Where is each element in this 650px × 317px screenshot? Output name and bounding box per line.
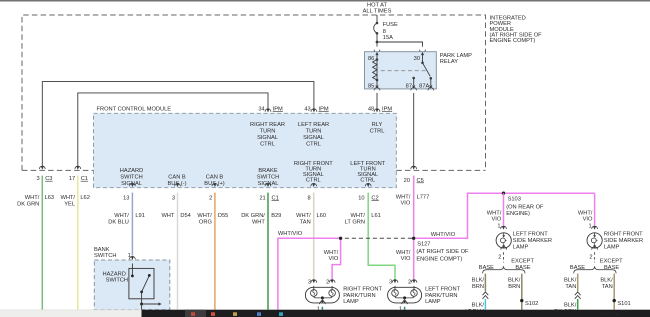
wire WHT/VIO from S127 down to left front park/turn lamp pin 2 — [413, 240, 415, 279]
FCM left front turn signal ctrl label — [350, 161, 385, 183]
svg-text:WHT: WHT — [161, 213, 174, 219]
svg-text:2: 2 — [408, 279, 411, 285]
svg-text:LAMP: LAMP — [343, 299, 359, 305]
taskbar icon teal — [279, 312, 283, 316]
svg-text:RIGHT REAR: RIGHT REAR — [250, 122, 285, 128]
wire L62 WHT/YEL — [77, 176, 79, 310]
park lamp relay box — [365, 52, 437, 89]
svg-text:EXCEPT: EXCEPT — [511, 259, 534, 265]
svg-text:1: 1 — [497, 223, 500, 229]
svg-text:11:25 PM: 11:25 PM — [600, 311, 619, 316]
svg-text:17: 17 — [69, 176, 75, 182]
svg-text:2: 2 — [498, 255, 501, 261]
taskbar icon blue — [257, 312, 261, 316]
svg-text:BRAKE: BRAKE — [258, 168, 277, 174]
wire WHT/VIO branch to right front park/turn lamp pin 2 — [332, 240, 341, 279]
FCM right rear turn signal ctrl label — [250, 122, 285, 148]
svg-text:BLK/: BLK/ — [472, 303, 485, 309]
svg-text:BLK/: BLK/ — [508, 278, 521, 284]
svg-text:43: 43 — [304, 106, 310, 112]
svg-text:(ON REAR OF: (ON REAR OF — [506, 205, 544, 211]
wire L91 WHT/DK BLU to hazard switch — [131, 193, 133, 256]
wire fuse to junction — [376, 33, 378, 42]
integrated power module dashed box — [22, 15, 486, 170]
wire to relay pin 86 — [376, 42, 378, 47]
junction node above relay — [376, 41, 379, 44]
svg-text:10: 10 — [358, 196, 364, 202]
svg-text:WHT/: WHT/ — [324, 250, 339, 256]
svg-text:15A: 15A — [383, 35, 393, 41]
FCM right front turn signal ctrl label — [294, 161, 333, 183]
base / except base bracket left set — [483, 266, 525, 273]
svg-text:SIDE MARKER: SIDE MARKER — [604, 238, 643, 244]
svg-text:WHT/: WHT/ — [60, 195, 75, 201]
relay switch armature — [423, 63, 431, 77]
svg-text:DK GRN: DK GRN — [17, 201, 39, 207]
svg-text:L62: L62 — [80, 195, 90, 201]
connector bump pin 30 — [420, 50, 426, 53]
wire D55 WHT/ORG — [214, 193, 216, 310]
svg-text:LT GRN: LT GRN — [345, 220, 365, 226]
svg-text:DK GRN/: DK GRN/ — [241, 213, 265, 219]
svg-text:(AT RIGHT SIDE OF: (AT RIGHT SIDE OF — [416, 249, 469, 255]
svg-text:RLY: RLY — [372, 122, 383, 128]
svg-text:CTRL: CTRL — [306, 177, 321, 183]
splice S103 — [502, 192, 505, 195]
splice S101 — [613, 299, 616, 302]
wire L777 WHT/VIO from pin 20 C5 — [413, 176, 415, 237]
wire BLK/BRN base branch — [484, 274, 486, 292]
svg-text:FRONT CONTROL MODULE: FRONT CONTROL MODULE — [97, 107, 172, 113]
svg-text:VIO: VIO — [401, 256, 411, 262]
svg-text:CTRL: CTRL — [360, 177, 375, 183]
right front park/turn lamp — [305, 279, 382, 312]
svg-text:TAN: TAN — [300, 220, 311, 226]
connector bumps below relay — [374, 88, 380, 91]
svg-text:WHT/: WHT/ — [114, 213, 129, 219]
left front side marker lamp — [496, 231, 552, 250]
inline connector chevrons right — [575, 292, 581, 299]
svg-text:BANK: BANK — [94, 247, 110, 253]
svg-text:ENGINE COMPT): ENGINE COMPT) — [416, 257, 462, 263]
wire BLK/TAN except base branch — [613, 274, 615, 310]
FCM hazard switch signal label — [120, 168, 143, 187]
svg-text:ALL TIMES: ALL TIMES — [363, 9, 392, 15]
svg-text:3: 3 — [308, 279, 311, 285]
svg-text:SWITCH: SWITCH — [257, 175, 279, 181]
left front park/turn lamp — [388, 279, 461, 312]
splice S127 — [412, 237, 415, 240]
svg-text:RELAY: RELAY — [440, 59, 458, 65]
base / except base bracket right set — [574, 266, 616, 273]
svg-text:S127: S127 — [417, 242, 430, 248]
svg-text:LAMP: LAMP — [425, 299, 441, 305]
svg-text:PARK/TURN: PARK/TURN — [343, 293, 375, 299]
svg-text:CAN B: CAN B — [168, 175, 186, 181]
windows taskbar — [142, 310, 650, 317]
svg-text:VIO: VIO — [400, 201, 410, 207]
svg-text:L63: L63 — [45, 195, 55, 201]
svg-text:HAZARD: HAZARD — [120, 168, 143, 174]
wire to right front side marker lamp — [594, 193, 596, 225]
svg-text:WHT/VIO: WHT/VIO — [278, 231, 303, 237]
FCM left rear turn signal ctrl label — [298, 122, 329, 148]
svg-text:85: 85 — [368, 84, 374, 90]
bank switch dashed box — [94, 260, 170, 310]
svg-text:D55: D55 — [218, 213, 228, 219]
wire L63 WHT/DK GRN — [41, 176, 43, 310]
svg-text:BLK/: BLK/ — [472, 278, 485, 284]
taskbar icon tan — [233, 312, 237, 316]
svg-text:BASE: BASE — [515, 265, 530, 271]
svg-text:BLK/: BLK/ — [564, 303, 577, 309]
fuse 8 15A — [376, 22, 379, 25]
svg-text:LAMP: LAMP — [513, 244, 529, 250]
wire routing outer loop to FCM pin 43 — [42, 82, 314, 166]
connector bump pin 86 — [374, 50, 380, 53]
svg-text:SWITCH: SWITCH — [94, 253, 116, 259]
svg-text:PARK/TURN: PARK/TURN — [425, 293, 457, 299]
relay pin 87 — [412, 77, 415, 80]
svg-text:VIO: VIO — [583, 217, 593, 223]
FCM brake switch signal label — [257, 168, 279, 187]
svg-text:BASE: BASE — [604, 265, 619, 271]
svg-text:30: 30 — [414, 56, 420, 62]
svg-text:2: 2 — [326, 279, 329, 285]
relay dashed link coil to switch — [381, 70, 426, 72]
svg-text:SIGNAL: SIGNAL — [303, 135, 324, 141]
svg-text:VIO: VIO — [328, 256, 338, 262]
svg-text:ORG: ORG — [199, 220, 212, 226]
app status strip — [0, 310, 142, 317]
wire BLK/DK GRN — [577, 299, 579, 310]
relay pin 30 — [421, 52, 424, 57]
svg-text:TURN: TURN — [306, 129, 322, 135]
svg-text:WHT/: WHT/ — [197, 213, 212, 219]
hazard switch — [103, 263, 162, 309]
svg-text:EXCEPT: EXCEPT — [600, 259, 623, 265]
wire routing inner loop to FCM pin 34 — [78, 93, 268, 166]
svg-text:BLK/: BLK/ — [600, 278, 613, 284]
svg-text:BASE: BASE — [479, 265, 494, 271]
FCM can b bus minus label — [168, 175, 187, 187]
wire B29 DK GRN/WHT — [267, 193, 269, 310]
svg-text:LEFT REAR: LEFT REAR — [298, 122, 329, 128]
splice S102 — [520, 299, 523, 302]
svg-text:CAN B: CAN B — [206, 175, 224, 181]
svg-text:2: 2 — [209, 196, 212, 202]
FCM can b bus plus label — [204, 175, 224, 187]
relay pin 86 — [375, 52, 378, 57]
FCM rly ctrl label — [370, 122, 385, 135]
svg-text:LEFT FRONT: LEFT FRONT — [513, 231, 548, 237]
svg-text:ENGINE COMPT): ENGINE COMPT) — [490, 38, 536, 44]
svg-text:S101: S101 — [617, 301, 630, 307]
wire L60 WHT/TAN to right front park/turn lamp — [313, 193, 315, 280]
wire from hot feed to fuse — [376, 15, 378, 23]
svg-text:2: 2 — [589, 255, 592, 261]
svg-text:WHT/: WHT/ — [578, 210, 593, 216]
svg-text:WHT: WHT — [252, 220, 265, 226]
wire branch to relay pin 30 — [377, 42, 423, 47]
svg-text:LAMP: LAMP — [604, 244, 620, 250]
wire relay 85 to FCM pin 48 — [376, 93, 378, 109]
svg-text:BASE: BASE — [570, 265, 585, 271]
svg-text:L777: L777 — [417, 195, 430, 201]
wire relay 87 to IPM pin 20 C5 — [413, 93, 415, 166]
svg-text:WHT/VIO: WHT/VIO — [431, 232, 456, 238]
svg-text:3: 3 — [389, 279, 392, 285]
svg-text:L91: L91 — [135, 213, 145, 219]
svg-text:1: 1 — [589, 223, 592, 229]
wire D54 WHT — [177, 193, 179, 310]
svg-text:DK BLU: DK BLU — [108, 220, 129, 226]
svg-text:CTRL: CTRL — [370, 129, 385, 135]
dashed wire section S127 to splice node — [342, 237, 412, 239]
svg-text:SIDE MARKER: SIDE MARKER — [513, 238, 552, 244]
FCM bottom pin connectors — [130, 183, 136, 187]
svg-text:SWITCH: SWITCH — [120, 175, 142, 181]
svg-text:HOT AT: HOT AT — [367, 2, 388, 8]
svg-text:3: 3 — [172, 196, 175, 202]
svg-text:L60: L60 — [317, 213, 327, 219]
svg-text:B29: B29 — [271, 213, 281, 219]
svg-text:WHT/: WHT/ — [396, 195, 411, 201]
svg-text:CTRL: CTRL — [260, 142, 275, 148]
svg-text:WHT/: WHT/ — [396, 250, 411, 256]
svg-text:WHT/: WHT/ — [350, 213, 365, 219]
wire BLK/BRN except base branch — [521, 274, 523, 310]
svg-text:SIGNAL: SIGNAL — [257, 135, 278, 141]
svg-text:48: 48 — [368, 106, 374, 112]
taskbar icon orange — [211, 312, 215, 316]
svg-text:YEL: YEL — [64, 201, 75, 207]
svg-text:S102: S102 — [525, 301, 538, 307]
relay pin 87A — [430, 77, 433, 80]
top border line — [0, 0, 650, 2]
taskbar icon red — [191, 312, 195, 316]
svg-text:BRN: BRN — [472, 284, 484, 290]
svg-text:S103: S103 — [508, 197, 521, 203]
svg-text:D54: D54 — [180, 213, 190, 219]
svg-text:VIO: VIO — [491, 217, 501, 223]
wire WHT/VIO running left and down — [278, 238, 339, 309]
relay coil — [376, 56, 378, 59]
svg-text:3: 3 — [37, 176, 40, 182]
svg-text:TURN: TURN — [260, 129, 276, 135]
inline connector chevrons — [483, 292, 489, 299]
junction node left of S127 — [339, 237, 342, 240]
svg-text:LEFT FRONT: LEFT FRONT — [425, 286, 460, 292]
right front side marker lamp — [587, 231, 643, 250]
svg-text:SWITCH: SWITCH — [106, 277, 128, 283]
wire L61 WHT/LT GRN to left front park/turn lamp — [368, 193, 395, 280]
wire BLK/TAN base branch — [577, 274, 579, 292]
svg-text:BLK/: BLK/ — [564, 278, 577, 284]
left marker lamp pin 2 exit — [498, 247, 506, 263]
wire WHT/VIO from S127 to S103 run — [415, 193, 594, 238]
svg-text:TAN: TAN — [565, 284, 576, 290]
svg-text:20: 20 — [404, 178, 410, 184]
right marker lamp pin 2 exit — [589, 247, 597, 263]
svg-text:34: 34 — [258, 106, 264, 112]
svg-text:WHT/: WHT/ — [25, 195, 40, 201]
svg-text:L61: L61 — [371, 213, 381, 219]
svg-text:RIGHT FRONT: RIGHT FRONT — [343, 286, 382, 292]
front control module box — [94, 113, 397, 187]
relay pin 85 — [376, 80, 378, 85]
wire BLK/LT BLU — [484, 299, 486, 310]
svg-text:FUSE: FUSE — [383, 22, 398, 28]
svg-text:BRN: BRN — [508, 284, 520, 290]
wire S103 to left front side marker lamp — [503, 193, 505, 225]
svg-text:WHT/: WHT/ — [296, 213, 311, 219]
svg-text:RIGHT FRONT: RIGHT FRONT — [604, 231, 643, 237]
svg-text:TAN: TAN — [602, 284, 613, 290]
svg-text:CTRL: CTRL — [306, 142, 321, 148]
svg-text:ENGINE): ENGINE) — [506, 211, 530, 217]
svg-text:21: 21 — [259, 196, 265, 202]
svg-text:WHT/: WHT/ — [487, 210, 502, 216]
svg-text:8: 8 — [308, 196, 311, 202]
svg-text:13: 13 — [123, 196, 129, 202]
